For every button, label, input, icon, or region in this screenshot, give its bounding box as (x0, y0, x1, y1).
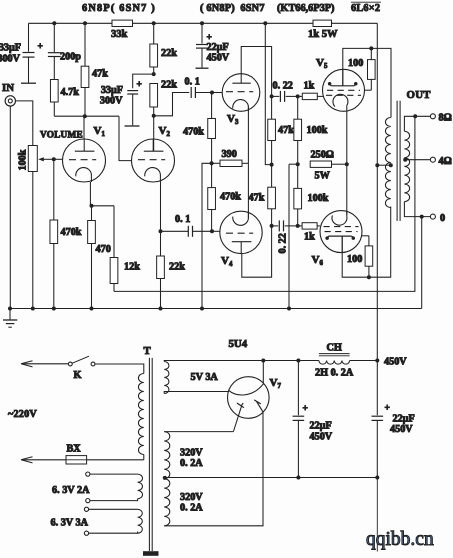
capacitor 33uF 300V input decoupling (28, 23, 30, 51)
svg-text:5V 3A: 5V 3A (191, 372, 219, 383)
svg-text:0: 0 (440, 213, 445, 224)
wire V1 grid lead (54, 158, 63, 160)
wire mains top with arrow (22, 363, 68, 365)
wire V4 grid lead (212, 230, 220, 232)
beam tetrode V5 (323, 69, 365, 111)
resistor 4.7k (53, 57, 55, 80)
svg-text:300V: 300V (100, 96, 123, 107)
winding 5V 3A (164, 362, 169, 394)
svg-text:+: + (385, 404, 390, 414)
wire V2 cathode lead (160, 182, 162, 231)
choke CH 2H 0.2A (319, 353, 350, 355)
svg-text:(KT66,6P3P): (KT66,6P3P) (277, 3, 334, 14)
svg-text:BX: BX (67, 444, 82, 455)
wire V4 anode down-over (242, 226, 272, 277)
node rail-200p junction (52, 21, 56, 25)
node B+ OPT CT junction (375, 163, 379, 167)
node ground 22k (159, 307, 163, 311)
svg-text:( 6N8P) 6SN7: ( 6N8P) 6SN7 (200, 3, 265, 14)
rectifier tube V7 5U4 (228, 377, 270, 419)
node 4.7k/47k/V1-anode junction (83, 114, 87, 118)
svg-text:0. 2A: 0. 2A (180, 458, 203, 469)
wire secondary bottom to 0 tap (404, 202, 430, 217)
node bias network junction (296, 162, 300, 166)
svg-text:200p: 200p (60, 52, 81, 63)
svg-text:33k: 33k (111, 29, 128, 40)
node ground mid (287, 307, 291, 311)
wire PSU ground rail (165, 477, 377, 479)
svg-text:470k: 470k (61, 227, 82, 238)
fuse BX (66, 456, 87, 464)
triode V3 (222, 74, 260, 112)
svg-text:390: 390 (222, 149, 237, 160)
node feedback tap 8ohm (413, 114, 417, 118)
svg-text:+: + (137, 80, 142, 90)
node 390 left junction (210, 161, 214, 165)
node PSU ground cap2 (375, 476, 379, 480)
wire V4 cathode to 390 (247, 163, 249, 218)
wire top B+ rail right section (332, 22, 378, 24)
resistor 47k V1 plate load (84, 23, 86, 66)
svg-text:VOLUME: VOLUME (40, 131, 83, 141)
resistor 250ohm 5W cathode bias (310, 161, 331, 167)
node rail-22k junction (152, 21, 156, 25)
capacitor 200p (53, 23, 55, 52)
node V3 grid junction (210, 91, 214, 95)
wire V2 anode lead (153, 116, 155, 151)
node 47k B+ junction (270, 163, 274, 167)
wire HV bottom to V7 anode (164, 412, 263, 526)
output transformer primary winding (385, 118, 390, 208)
svg-text:6. 3V 2A: 6. 3V 2A (52, 485, 90, 496)
svg-text:47k: 47k (92, 69, 108, 80)
node V4 anode/0.22 junction (270, 224, 274, 228)
svg-text:OUT: OUT (407, 89, 432, 101)
wire ground rail riser to 0 tap (421, 217, 423, 309)
wire jack hot to volume pot (16, 101, 33, 146)
wire mains bottom with arrow (22, 459, 66, 461)
node V2 cathode junction (159, 229, 163, 233)
resistor 470k V1 grid leak (53, 159, 55, 220)
svg-text:1k 5W: 1k 5W (308, 29, 338, 40)
svg-text:5W: 5W (315, 171, 331, 182)
input jack J1 (5, 96, 15, 106)
wire V3 anode up-over (241, 47, 271, 97)
node rail-47k junction (83, 21, 87, 25)
node V5 grid junction (296, 94, 300, 98)
terminal 0 (430, 214, 435, 219)
svg-text:450V: 450V (207, 53, 230, 64)
resistor 22k upper V2 (153, 23, 155, 44)
capacitor 22uF 450V filter 1 (297, 361, 299, 416)
resistor 100 V6 screen (362, 235, 369, 237)
node V7 filament junction (261, 359, 265, 363)
wire V5 cathode to bias (346, 111, 348, 164)
wire rectifier B+ line (164, 361, 298, 362)
resistor 33k (rail) (112, 20, 133, 26)
svg-text:47k: 47k (278, 125, 294, 136)
resistor 470 V1 cathode (91, 206, 93, 221)
svg-text:22μF: 22μF (310, 421, 332, 432)
winding 320V 0.2A HV (164, 432, 170, 526)
svg-text:470k: 470k (220, 192, 241, 203)
svg-text:100: 100 (347, 254, 362, 265)
svg-text:0. 22: 0. 22 (273, 81, 293, 92)
svg-text:IN: IN (2, 82, 14, 94)
node V5 anode/100 junction (369, 46, 373, 50)
wire direct coupling to V2 grid (119, 116, 132, 160)
svg-text:470k: 470k (183, 127, 204, 138)
svg-text:4.7k: 4.7k (61, 87, 80, 98)
wire B+ riser 450V (376, 23, 378, 360)
svg-text:320V: 320V (180, 492, 203, 503)
svg-text:6L6×2: 6L6×2 (351, 3, 380, 14)
svg-text:+: + (303, 404, 308, 414)
wire V3 cathode lead (247, 107, 249, 164)
node PSU ground cap1 (296, 476, 300, 480)
node ground 470k (52, 307, 56, 311)
node V1 cathode junction (90, 204, 94, 208)
node V6 anode/100 junction (367, 275, 371, 279)
triode V2 (132, 139, 175, 182)
output transformer core (396, 101, 398, 221)
svg-text:1k: 1k (304, 81, 315, 92)
svg-text:22k: 22k (161, 48, 177, 59)
svg-text:100k: 100k (308, 193, 329, 204)
ground symbol main (9, 309, 11, 320)
svg-text:0. 2A: 0. 2A (180, 503, 203, 514)
wire V6 anode to OPT (342, 207, 391, 278)
terminal 8ohm (430, 114, 435, 119)
output transformer secondary winding (404, 131, 409, 201)
wire V5 anode to OPT (343, 48, 391, 117)
svg-text:5U4: 5U4 (229, 338, 248, 350)
svg-text:K: K (74, 370, 82, 381)
wire V7 filament top lead (262, 361, 264, 384)
svg-text:qqibb.cn: qqibb.cn (366, 529, 434, 550)
beam tetrode V6 (inverted) (320, 211, 362, 253)
winding 6.3V 2A (138, 474, 143, 499)
power transformer primary winding (138, 374, 143, 455)
svg-text:250Ω: 250Ω (311, 150, 334, 161)
wire feedback line (114, 116, 415, 291)
resistor 22k V2 cathode (160, 231, 162, 256)
node 0 tap ground junction (420, 215, 424, 219)
node choke in (296, 359, 300, 363)
triode V1 (63, 139, 106, 182)
svg-text:1k: 1k (304, 232, 315, 243)
capacitor 22uF 450V filter 2 (376, 361, 378, 416)
node ground 470 (90, 307, 94, 311)
capacitor 22uF 450V preamp decoupling (201, 23, 203, 43)
svg-text:12k: 12k (124, 262, 140, 273)
svg-text:22k: 22k (161, 80, 177, 91)
resistor 470k V4 grid (211, 163, 213, 187)
wire pot bottom to ground (32, 172, 34, 309)
wire bias node to mid ground drop (289, 163, 298, 165)
resistor 47k V4 plate load (271, 165, 273, 188)
resistor 47k V3 plate load (271, 96, 273, 119)
node ground pot (31, 307, 35, 311)
node HV center tap (163, 476, 167, 480)
wire 390 left to ground drop (202, 163, 212, 308)
capacitor 0.1 coupling V2-V3 (154, 93, 190, 116)
wire jack ground lead (9, 106, 11, 308)
wire OPT center tap to B+ (377, 164, 391, 166)
svg-text:100k: 100k (307, 125, 328, 136)
node cathode bias junction (345, 162, 349, 166)
svg-text:6N8P( 6SN7 ): 6N8P( 6SN7 ) (82, 3, 156, 14)
svg-text:22μF: 22μF (207, 42, 229, 53)
wire primary bottom to fuse (87, 459, 144, 461)
svg-text:0. 1: 0. 1 (185, 77, 200, 88)
svg-text:2H 0. 2A: 2H 0. 2A (315, 368, 354, 379)
svg-text:6. 3V 3A: 6. 3V 3A (51, 518, 89, 529)
wire B+ feed to 47k junction (265, 23, 271, 164)
power transformer core ground plate (143, 551, 159, 556)
node ground rail left end (8, 307, 12, 311)
pot wiper arrow (42, 158, 54, 160)
resistor 470k V3 grid leak (211, 93, 213, 119)
node rail-22uF junction (200, 21, 204, 25)
resistor 100 V5 screen (364, 89, 371, 91)
svg-text:47k: 47k (249, 193, 265, 204)
triode V4 (inverted) (220, 211, 262, 253)
svg-text:33μF: 33μF (101, 85, 123, 96)
svg-text:~220V: ~220V (8, 409, 37, 420)
resistor 100k V6 grid leak (297, 164, 299, 188)
resistor 1k V6 grid stopper (298, 225, 302, 227)
wire top B+ rail left section (29, 22, 113, 24)
svg-text:CH: CH (327, 343, 342, 354)
wire ground rail (10, 308, 422, 310)
svg-text:450V: 450V (310, 432, 333, 443)
svg-text:450V: 450V (390, 424, 413, 435)
switch K (68, 362, 72, 366)
svg-text:0. 1: 0. 1 (175, 214, 190, 225)
wire 4ohm tap (404, 159, 430, 161)
resistor 22k lower V2 (150, 84, 158, 108)
node V2 anode junction (152, 114, 156, 118)
wire secondary top to 8ohm tap (404, 116, 430, 131)
node V1 grid junction (52, 157, 56, 161)
node rail-47k-driver junction (263, 21, 267, 25)
svg-text:100: 100 (348, 58, 363, 69)
svg-text:22k: 22k (169, 262, 185, 273)
svg-text:8Ω: 8Ω (439, 113, 452, 124)
svg-text:0. 22: 0. 22 (278, 233, 289, 253)
node OPT primary center tap (389, 163, 393, 167)
power transformer core (148, 358, 150, 551)
wire switch to primary (95, 364, 144, 374)
capacitor 0.1 coupling to V4 grid (161, 230, 189, 232)
svg-text:320V: 320V (180, 448, 203, 459)
node V3 anode/0.22 junction (270, 94, 274, 98)
svg-text:4Ω: 4Ω (439, 156, 452, 167)
svg-text:470: 470 (96, 244, 111, 255)
resistor 390 (212, 162, 220, 164)
resistor 100k V5 grid leak (297, 96, 299, 119)
wire top B+ rail middle section (133, 22, 314, 24)
wire mid ground drop (288, 164, 290, 308)
svg-text:300V: 300V (0, 54, 21, 65)
capacitor 0.22 coupling to V6 (272, 225, 279, 227)
wire V6 cathode to bias (346, 164, 348, 214)
node 4ohm coil tap (403, 158, 407, 162)
wire V1 anode node line (54, 115, 119, 117)
wire PSU ground stub down (376, 478, 378, 552)
resistor 1k 5W (rail) (313, 20, 332, 26)
node 22k/33uF junction (152, 72, 156, 76)
svg-text:T: T (144, 345, 152, 357)
wire V1 cathode lead (89, 182, 91, 206)
capacitor 0.22 coupling to V5 (272, 95, 280, 97)
wire V3 grid lead (212, 92, 222, 94)
node choke out 450V (375, 359, 379, 363)
svg-text:100k: 100k (18, 149, 29, 170)
potentiometer VOLUME 100k (28, 146, 37, 172)
capacitor 33uF 300V V2 decoupling (133, 74, 154, 88)
svg-text:450V: 450V (384, 357, 407, 368)
wire 5V bottom to V7 (164, 392, 228, 394)
resistor 1k V5 grid stopper (298, 95, 303, 97)
node ground 390-net (200, 307, 204, 311)
svg-text:+: + (38, 42, 43, 52)
node V6 grid junction (296, 224, 300, 228)
wire HV top to V7 anode (164, 431, 233, 433)
terminal 4ohm (430, 157, 435, 162)
svg-text:22μF: 22μF (393, 414, 415, 425)
wire V1 anode lead (83, 116, 85, 139)
node V4 grid junction (210, 229, 214, 233)
svg-text:33μF: 33μF (0, 43, 21, 54)
resistor 12k feedback (113, 206, 115, 258)
winding 6.3V 3A (138, 509, 143, 533)
